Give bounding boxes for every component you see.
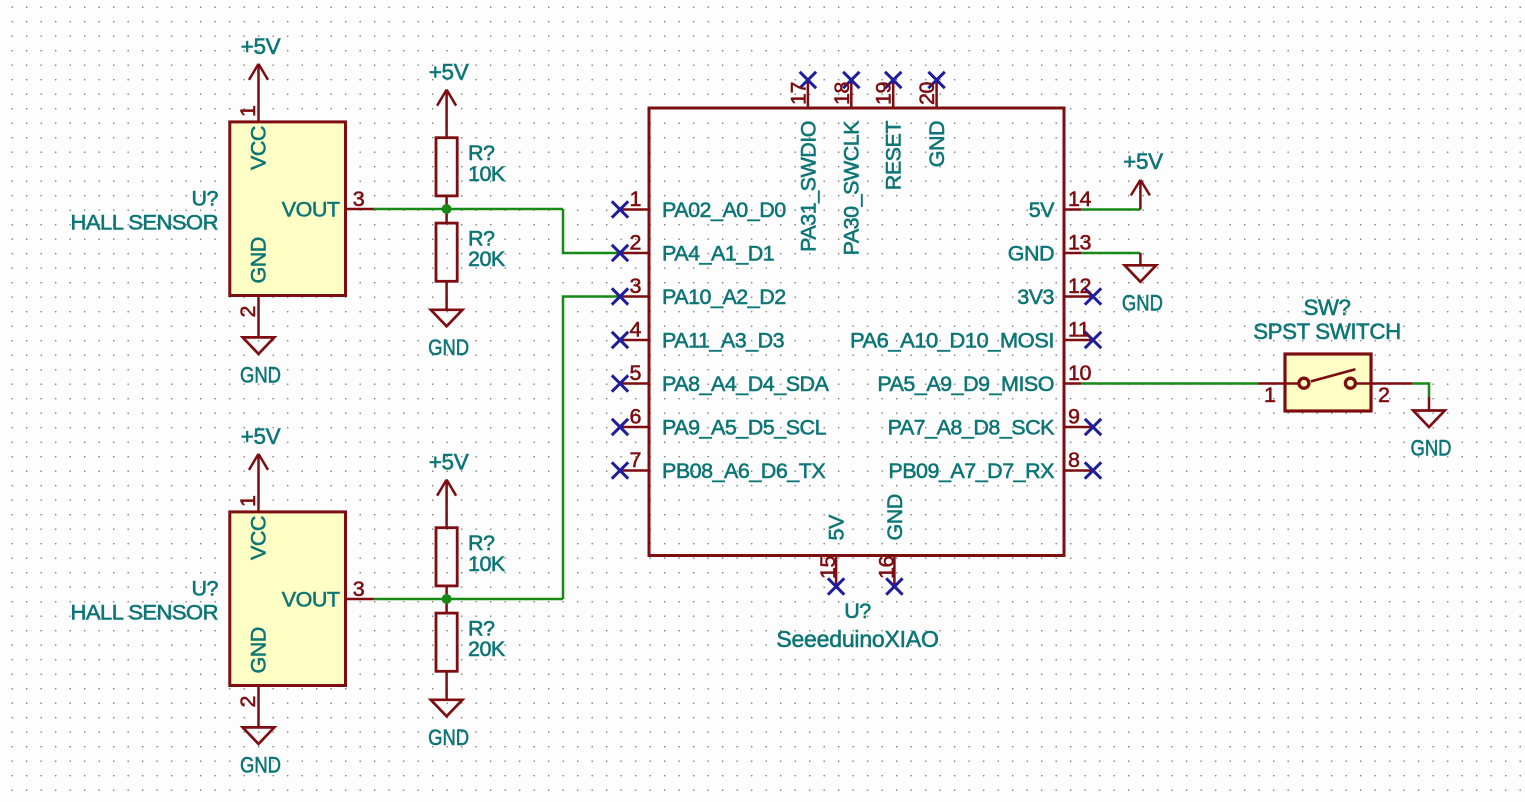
svg-text:10K: 10K xyxy=(468,552,506,576)
svg-text:SeeeduinoXIAO: SeeeduinoXIAO xyxy=(776,626,938,652)
svg-text:15: 15 xyxy=(816,556,840,579)
svg-text:VOUT: VOUT xyxy=(282,198,340,222)
svg-text:GND: GND xyxy=(883,494,907,540)
svg-text:1: 1 xyxy=(630,187,641,211)
svg-text:PA4_A1_D1: PA4_A1_D1 xyxy=(662,242,774,266)
svg-text:9: 9 xyxy=(1068,405,1079,429)
svg-text:1: 1 xyxy=(1264,383,1275,407)
svg-text:19: 19 xyxy=(872,82,896,105)
svg-text:20K: 20K xyxy=(468,637,506,661)
svg-text:6: 6 xyxy=(630,405,642,429)
svg-text:SW?: SW? xyxy=(1303,295,1350,320)
svg-text:PA30_SWCLK: PA30_SWCLK xyxy=(840,120,864,256)
svg-text:2: 2 xyxy=(236,306,260,317)
svg-text:PB09_A7_D7_RX: PB09_A7_D7_RX xyxy=(888,459,1054,483)
svg-text:GND: GND xyxy=(428,335,469,360)
svg-text:PA6_A10_D10_MOSI: PA6_A10_D10_MOSI xyxy=(850,329,1054,353)
svg-text:PA10_A2_D2: PA10_A2_D2 xyxy=(662,285,786,309)
svg-text:RESET: RESET xyxy=(882,121,906,191)
svg-text:8: 8 xyxy=(1068,448,1080,472)
svg-text:+5V: +5V xyxy=(241,34,281,59)
svg-text:+5V: +5V xyxy=(429,450,469,475)
svg-text:PA11_A3_D3: PA11_A3_D3 xyxy=(662,329,785,353)
svg-text:PA02_A0_D0: PA02_A0_D0 xyxy=(662,198,786,222)
svg-text:2: 2 xyxy=(630,231,641,255)
svg-text:7: 7 xyxy=(630,448,641,472)
svg-text:PB08_A6_D6_TX: PB08_A6_D6_TX xyxy=(662,459,825,483)
svg-text:3: 3 xyxy=(630,274,642,298)
svg-text:U?: U? xyxy=(844,599,871,623)
svg-text:GND: GND xyxy=(247,237,271,283)
svg-text:5: 5 xyxy=(630,361,642,385)
svg-text:10K: 10K xyxy=(468,162,506,186)
svg-text:GND: GND xyxy=(247,627,271,673)
svg-text:GND: GND xyxy=(240,362,281,387)
svg-text:10: 10 xyxy=(1068,361,1091,385)
svg-text:1: 1 xyxy=(236,106,260,117)
svg-text:3V3: 3V3 xyxy=(1017,285,1054,309)
svg-text:12: 12 xyxy=(1068,274,1091,298)
svg-text:+5V: +5V xyxy=(429,60,469,85)
svg-text:VOUT: VOUT xyxy=(282,588,340,612)
svg-text:VCC: VCC xyxy=(247,516,271,560)
svg-text:SPST SWITCH: SPST SWITCH xyxy=(1253,319,1401,344)
svg-text:GND: GND xyxy=(1008,242,1054,266)
svg-text:13: 13 xyxy=(1068,231,1091,255)
svg-text:PA5_A9_D9_MISO: PA5_A9_D9_MISO xyxy=(877,372,1054,396)
svg-text:GND: GND xyxy=(1122,290,1163,315)
svg-text:17: 17 xyxy=(786,82,810,105)
svg-text:18: 18 xyxy=(830,82,854,105)
svg-text:5V: 5V xyxy=(825,514,849,540)
svg-text:2: 2 xyxy=(236,696,260,707)
svg-text:GND: GND xyxy=(428,725,469,750)
svg-text:PA31_SWDIO: PA31_SWDIO xyxy=(796,121,820,252)
svg-text:GND: GND xyxy=(925,121,949,167)
svg-text:VCC: VCC xyxy=(247,126,271,170)
svg-text:U?: U? xyxy=(192,187,219,211)
svg-text:2: 2 xyxy=(1378,383,1389,407)
svg-text:14: 14 xyxy=(1068,187,1091,211)
svg-text:5V: 5V xyxy=(1029,198,1055,222)
svg-text:PA9_A5_D5_SCL: PA9_A5_D5_SCL xyxy=(662,416,827,440)
svg-text:16: 16 xyxy=(874,556,898,579)
svg-text:4: 4 xyxy=(630,318,642,342)
svg-text:PA8_A4_D4_SDA: PA8_A4_D4_SDA xyxy=(662,372,830,396)
svg-text:GND: GND xyxy=(1411,436,1452,461)
svg-text:+5V: +5V xyxy=(241,424,281,449)
svg-text:11: 11 xyxy=(1068,318,1089,342)
svg-text:PA7_A8_D8_SCK: PA7_A8_D8_SCK xyxy=(888,416,1056,440)
svg-text:3: 3 xyxy=(353,577,365,601)
svg-text:HALL SENSOR: HALL SENSOR xyxy=(71,601,219,625)
svg-text:GND: GND xyxy=(240,752,281,777)
svg-text:20K: 20K xyxy=(468,247,506,271)
svg-text:+5V: +5V xyxy=(1123,149,1163,174)
svg-text:HALL SENSOR: HALL SENSOR xyxy=(71,211,219,235)
svg-text:1: 1 xyxy=(236,496,260,507)
svg-text:3: 3 xyxy=(353,187,365,211)
svg-text:20: 20 xyxy=(915,82,939,105)
svg-text:U?: U? xyxy=(192,577,219,601)
